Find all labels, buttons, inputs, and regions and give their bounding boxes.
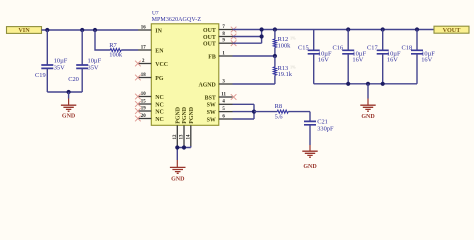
junction output ground tap	[366, 82, 370, 86]
pin 13 PGND	[180, 107, 189, 146]
pin 19 NC	[138, 106, 164, 115]
svg-text:10: 10	[141, 92, 146, 97]
pin 17 EN	[138, 45, 164, 54]
junction OUT/C17	[381, 27, 385, 31]
svg-text:BST: BST	[205, 95, 216, 101]
no-ERC marker pin 2	[135, 61, 141, 67]
svg-text:13: 13	[180, 134, 185, 139]
wire OUT rail	[233, 29, 435, 31]
junction SW node	[252, 110, 256, 114]
svg-text:100k: 100k	[109, 52, 123, 59]
wire input gnd drop	[68, 92, 70, 99]
junction FB node	[273, 54, 277, 58]
pin 7 OUT	[203, 25, 232, 34]
svg-text:16V: 16V	[387, 56, 398, 63]
wire output gnd drop	[367, 84, 369, 99]
ground GND (snubber)	[302, 145, 317, 170]
junction C16 ground	[346, 82, 350, 86]
svg-text:NC: NC	[155, 102, 164, 108]
svg-text:C20: C20	[68, 76, 79, 83]
svg-text:C15: C15	[298, 44, 309, 51]
svg-text:5.6: 5.6	[275, 113, 283, 120]
no-ERC marker pin 19	[135, 108, 141, 114]
svg-text:R7: R7	[109, 42, 117, 49]
junction node VIN/R7	[93, 28, 97, 32]
capacitor C17	[367, 30, 401, 84]
svg-text:C16: C16	[333, 44, 344, 51]
resistor R12	[273, 30, 291, 57]
svg-text:OUT: OUT	[203, 35, 216, 41]
pin 14 PGND	[186, 107, 195, 146]
svg-text:PGND: PGND	[176, 107, 182, 124]
junction OUT bus top	[260, 27, 264, 31]
pin 6 SW	[207, 114, 233, 123]
no-ERC marker pin 15	[135, 101, 141, 107]
wire SW pin6	[233, 118, 255, 120]
svg-text:PGND: PGND	[189, 107, 195, 124]
capacitor C16	[333, 30, 367, 84]
svg-text:11: 11	[221, 92, 226, 97]
junction node VIN/C20	[80, 28, 84, 32]
wire AGND	[233, 83, 275, 85]
svg-text:NC: NC	[155, 95, 164, 101]
svg-text:PGND: PGND	[182, 107, 188, 124]
wire output cap ground rail	[314, 83, 417, 85]
no-ERC marker pin 20	[135, 116, 141, 122]
junction OUT bus mid	[260, 34, 264, 38]
svg-text:12: 12	[173, 134, 178, 139]
port VOUT	[434, 26, 469, 34]
svg-text:AGND: AGND	[198, 82, 215, 88]
svg-text:MPM3620AGQV-Z: MPM3620AGQV-Z	[152, 17, 202, 23]
svg-text:20: 20	[141, 114, 146, 119]
pin 3 AGND	[198, 79, 232, 88]
pin 4 SW	[207, 100, 233, 109]
pin 11 BST	[205, 92, 233, 101]
resistor R13	[273, 56, 292, 84]
svg-text:C17: C17	[367, 44, 378, 51]
pin 10 NC	[138, 92, 164, 101]
svg-text:14: 14	[186, 134, 191, 139]
svg-text:C19: C19	[35, 72, 46, 79]
svg-text:C18: C18	[402, 44, 413, 51]
pin 8 OUT	[203, 32, 232, 41]
wire input cap ground rail	[47, 91, 82, 93]
pin 16 IN	[138, 25, 163, 34]
svg-text:16V: 16V	[421, 56, 432, 63]
svg-text:GND: GND	[303, 164, 317, 170]
svg-text:IN: IN	[155, 28, 162, 34]
resistor R7	[95, 30, 138, 59]
svg-text:NC: NC	[155, 117, 164, 123]
junction node VIN/C19	[45, 28, 49, 32]
wire PGND bus	[177, 146, 191, 160]
svg-text:19: 19	[141, 106, 146, 111]
capacitor C20	[68, 30, 101, 92]
svg-text:15: 15	[141, 99, 146, 104]
svg-text:330pF: 330pF	[317, 125, 334, 132]
no-ERC marker pin 7	[231, 27, 237, 33]
pin 9 OUT	[203, 39, 232, 48]
junction C17 ground	[381, 82, 385, 86]
wire SW pin4	[233, 104, 255, 119]
pin 20 NC	[138, 114, 164, 123]
no-ERC marker pin 11	[231, 94, 237, 100]
svg-text:R8: R8	[275, 103, 282, 110]
svg-text:16: 16	[141, 25, 146, 30]
capacitor C15	[298, 30, 332, 84]
wire OUT pin9	[233, 30, 262, 44]
svg-text:NC: NC	[155, 109, 164, 115]
wire SW pin5	[233, 111, 255, 113]
svg-text:18: 18	[141, 73, 146, 78]
svg-text:SW: SW	[207, 117, 216, 123]
capacitor C21	[304, 112, 334, 145]
svg-text:GND: GND	[62, 114, 76, 120]
IC U7 MPM3620AGQV-Z body	[151, 10, 219, 125]
svg-text:16V: 16V	[352, 56, 363, 63]
svg-text:16V: 16V	[318, 56, 329, 63]
capacitor C18	[402, 30, 436, 84]
svg-text:OUT: OUT	[203, 42, 216, 48]
no-ERC marker pin 10	[135, 94, 141, 100]
no-ERC marker pin 9	[231, 40, 237, 46]
svg-text:19.1k: 19.1k	[278, 71, 293, 78]
svg-text:100k: 100k	[278, 42, 292, 49]
wire FB	[233, 55, 275, 57]
svg-text:VIN: VIN	[18, 27, 30, 34]
svg-text:U7: U7	[152, 10, 159, 16]
svg-text:17: 17	[141, 45, 146, 50]
wire OUT pin8	[233, 36, 262, 38]
svg-text:1%: 1%	[290, 64, 296, 69]
ground GND (input)	[61, 99, 76, 120]
pin 18 PG	[138, 73, 164, 82]
junction OUT/R12	[273, 27, 277, 31]
resistor R8	[254, 103, 310, 121]
pin 1 FB	[208, 51, 232, 60]
svg-text:SW: SW	[207, 103, 216, 109]
junction PGND pin12	[175, 145, 179, 149]
junction OUT/C16	[346, 27, 350, 31]
no-ERC marker pin 8	[231, 34, 237, 40]
pin 15 NC	[138, 99, 164, 108]
svg-text:PG: PG	[155, 76, 164, 82]
ground GND (output)	[360, 99, 375, 120]
svg-text:GND: GND	[171, 176, 185, 182]
pin 12 PGND	[173, 107, 182, 146]
junction OUT/C18	[415, 27, 419, 31]
svg-text:OUT: OUT	[203, 28, 216, 34]
svg-text:EN: EN	[155, 48, 164, 54]
svg-text:1%: 1%	[290, 36, 296, 41]
pin 2 VCC	[138, 59, 168, 68]
no-ERC marker pin 18	[135, 75, 141, 81]
wire VIN rail	[42, 29, 139, 31]
port VIN	[7, 27, 42, 35]
ground GND (PGND)	[170, 160, 186, 182]
svg-text:GND: GND	[361, 114, 375, 120]
svg-text:35V: 35V	[54, 64, 65, 71]
svg-text:FB: FB	[208, 54, 216, 60]
svg-text:35V: 35V	[88, 64, 99, 71]
svg-text:VCC: VCC	[155, 62, 168, 68]
svg-text:SW: SW	[207, 110, 216, 116]
pin 5 SW	[207, 107, 233, 116]
svg-text:VOUT: VOUT	[443, 27, 462, 34]
capacitor C19	[35, 30, 68, 92]
junction PGND pin13	[182, 145, 186, 149]
junction input ground tap	[67, 90, 71, 94]
